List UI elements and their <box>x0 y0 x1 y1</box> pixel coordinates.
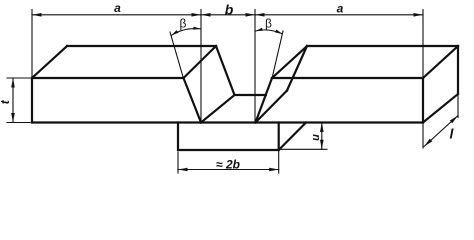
right plate front bevel edge <box>256 78 273 123</box>
right plate front face top edge <box>272 77 423 79</box>
extension line right root (x=255) <box>254 10 256 123</box>
svg-text:≈ 2b: ≈ 2b <box>216 157 240 171</box>
left plate root bottom depth edge <box>201 95 235 123</box>
t dimension line <box>12 78 14 123</box>
plates bottom front edge (continuous with strip top) <box>32 121 423 123</box>
t dimension extension line top <box>7 77 30 79</box>
right plate back top edge <box>307 45 458 47</box>
extension line right end (x=423) <box>422 10 424 78</box>
dimension line a right <box>255 14 423 16</box>
svg-text:β: β <box>180 17 187 31</box>
left plate top bevel depth edge <box>184 46 217 78</box>
left plate front face top edge <box>32 77 184 79</box>
backing strip bottom-right depth edge <box>279 123 306 151</box>
left plate back top edge <box>67 45 216 47</box>
l dimension front extension line <box>422 124 424 148</box>
dimension line b <box>201 14 255 16</box>
bevel extension line left (beta reference) <box>170 32 184 79</box>
right plate front right edge <box>422 78 424 123</box>
extension line left root (x=201) <box>200 10 202 123</box>
beta arc left <box>172 29 201 36</box>
left plate front bevel edge <box>184 78 202 123</box>
svg-text:a: a <box>114 1 121 15</box>
2b dimension left extension line <box>177 152 179 173</box>
right plate back right edge <box>457 46 459 93</box>
dimension line a left <box>32 14 201 16</box>
u dimension bottom extension line <box>281 148 327 150</box>
extension line left end (x=32) <box>31 10 33 78</box>
beta arc right <box>256 30 283 34</box>
t dimension extension line bottom <box>7 122 30 124</box>
right plate bottom-right depth edge <box>423 94 458 123</box>
svg-text:b: b <box>225 1 234 17</box>
right plate top bevel depth edge <box>272 46 307 78</box>
svg-text:t: t <box>0 99 12 104</box>
l dimension back extension line <box>457 95 459 118</box>
l dimension line <box>424 116 458 147</box>
2b dimension line <box>178 169 279 171</box>
left plate left edge <box>31 78 33 123</box>
right plate back bevel edge <box>287 46 307 91</box>
svg-text:u: u <box>310 134 322 141</box>
u dimension line <box>321 123 323 150</box>
svg-text:β: β <box>265 17 272 31</box>
left plate top-left depth edge <box>32 46 67 78</box>
backing strip top back edge (visible through root gap) <box>235 94 266 96</box>
right plate top-right depth edge <box>423 46 458 78</box>
svg-text:a: a <box>337 2 344 16</box>
svg-text:l: l <box>450 126 455 142</box>
left plate back bevel edge <box>216 46 235 95</box>
right plate root bottom depth edge <box>256 91 288 123</box>
2b dimension right extension line <box>278 151 280 173</box>
backing strip front face <box>178 123 279 151</box>
bevel extension line right (beta reference) <box>272 31 283 79</box>
